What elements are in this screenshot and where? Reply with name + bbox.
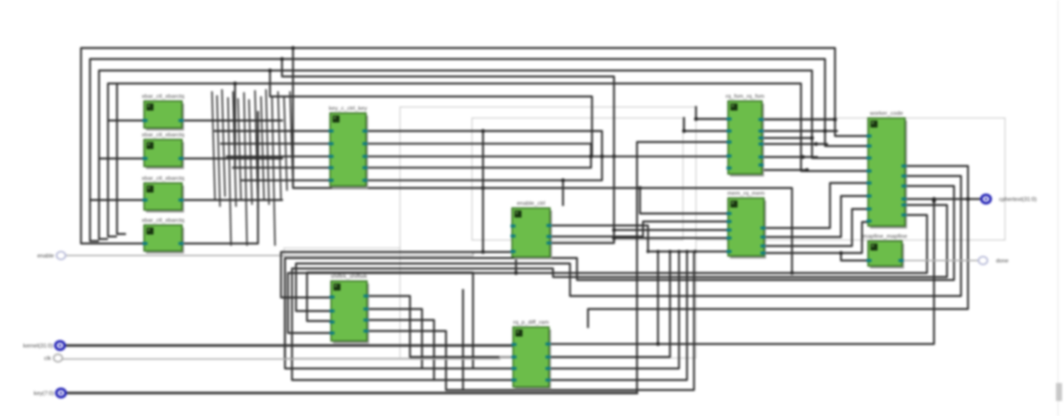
wire enable net (66, 252, 473, 256)
junction (693, 250, 696, 253)
svg-text:rq_p_diff_ram: rq_p_diff_ram (513, 320, 549, 326)
wire hatch v0 (212, 92, 215, 200)
wire hatch-B5.L y167.7 (233, 167, 330, 169)
svg-text:cphertext(31:0): cphertext(31:0) (999, 197, 1037, 203)
wire drop x235 (234, 84, 236, 169)
junction (233, 82, 237, 86)
wire B7.R0 (762, 119, 835, 121)
wire B8.R2-B9 (764, 196, 868, 237)
wire B7.R1 (762, 130, 837, 132)
svg-text:mapfine_mapfine: mapfine_mapfine (863, 234, 907, 240)
wire B6.R1 to bundle top (550, 226, 648, 252)
wire tap B8.L4 (614, 237, 727, 239)
junction (280, 57, 284, 61)
block B8 (727, 191, 767, 259)
junction (481, 250, 485, 254)
block B4 (142, 218, 185, 254)
hierarchy box G3 (284, 248, 400, 358)
block B10 (863, 234, 907, 269)
junction (810, 136, 814, 140)
junction (612, 155, 616, 159)
wire cross v1 (462, 290, 464, 390)
wire B7.R1b (762, 137, 812, 139)
wire B10.L feed (841, 253, 868, 261)
wire tap x563 (562, 180, 564, 205)
junction (932, 199, 936, 203)
wire B2.R-hatch (182, 158, 282, 160)
wire B12.R1 long to P5 net (549, 201, 934, 344)
junction (656, 342, 660, 346)
wire drop x614 to B6.R3 (550, 156, 614, 243)
svg-text:enable_ctrl: enable_ctrl (517, 201, 545, 207)
junction (589, 155, 593, 159)
wire hatch v11 (272, 98, 275, 245)
wire left v4 tail (108, 121, 116, 237)
wire B9.R-P5 (904, 198, 986, 200)
svg-text:enable: enable (37, 254, 54, 260)
wire rail2 B3.L-B9.L2 (90, 59, 868, 200)
svg-text:xbar_ctl_xbarctq: xbar_ctl_xbarctq (142, 133, 185, 139)
block B6 (511, 201, 553, 260)
svg-text:rq_fsm_rq_fsm: rq_fsm_rq_fsm (726, 94, 765, 100)
junction (668, 250, 671, 253)
block B11 (330, 274, 370, 344)
junction (932, 197, 936, 201)
wire hatch-B5.L y180.3 (241, 179, 330, 181)
wire B8.R4-B9 (764, 222, 868, 253)
junction (805, 168, 809, 172)
junction (694, 117, 698, 121)
wire B4.R riser x258 (181, 112, 258, 244)
wire rail4 B1.L-B9.L4 (108, 84, 868, 172)
wire B7.L2 feed (684, 118, 727, 131)
wire left v2 tail (90, 200, 98, 241)
wire done net (902, 260, 978, 262)
wire hatch v6 (244, 93, 247, 245)
svg-text:key(7:0): key(7:0) (34, 391, 54, 397)
block B3 (142, 176, 185, 213)
wire B11.R3 (367, 320, 513, 380)
wire hatch v2 (222, 90, 225, 196)
port enable (37, 252, 65, 260)
hierarchy box G1 (400, 107, 696, 358)
hierarchy box G2 (472, 118, 683, 240)
wire B7.R3 (762, 156, 817, 158)
wire F5 (292, 205, 947, 380)
hierarchy box G4 (696, 118, 1005, 240)
wire B7.L1 feed (696, 107, 727, 119)
svg-text:key_c_ctrl_key: key_c_ctrl_key (329, 106, 367, 112)
junction (268, 69, 272, 73)
junction (561, 178, 565, 182)
wire tap B8.L3 (614, 229, 727, 231)
window edge line (1058, 0, 1059, 416)
wire hatch v13 (284, 97, 287, 190)
wire kernel net (66, 344, 513, 346)
scrollbar fragment (1056, 383, 1062, 401)
wire bundle top to B8.L5 (648, 251, 727, 253)
wire F4 to B11.L4 (288, 215, 927, 333)
wire rail3 B2.L-B9.L3 (99, 71, 868, 159)
svg-text:shiftrk_shiftwk: shiftrk_shiftwk (331, 274, 368, 280)
wire clk net (63, 357, 513, 359)
wire hatch-B5.L y143.7 (221, 143, 330, 145)
junction (656, 250, 659, 253)
junction (677, 250, 680, 253)
svg-text:clk: clk (44, 356, 51, 362)
junction (790, 271, 794, 275)
block B5 (329, 106, 369, 189)
svg-text:done: done (996, 259, 1008, 265)
wire key net (66, 392, 637, 394)
wire left v3 tail (99, 159, 107, 240)
junction (814, 142, 818, 146)
wire B5.R3 long to B7.L5 (366, 155, 727, 157)
wire B6 bottom pin drop (515, 257, 517, 273)
wire B3.R-hatch (182, 199, 282, 201)
wire B6.R2 to B8.L2 (550, 222, 727, 237)
port key (34, 389, 66, 397)
wire left vertical 5 (117, 85, 125, 234)
svg-text:xbar_ctl_xbarctq: xbar_ctl_xbarctq (142, 218, 185, 224)
wire B8.R3-B9 (764, 209, 868, 246)
wire F3 (285, 186, 954, 369)
wire B11.R1 (367, 296, 513, 357)
wire B12.R3 up (549, 252, 679, 369)
svg-text:worker_code: worker_code (869, 111, 903, 117)
junction (514, 271, 518, 275)
wire cascade x282 y76.5 (282, 59, 614, 156)
wire B7.R2 (762, 143, 827, 145)
wire F2 (296, 176, 961, 311)
port cphertext (981, 195, 1036, 203)
wire F1 (588, 166, 968, 327)
wire hatch v7 (249, 100, 252, 204)
junction (833, 118, 837, 122)
junction (638, 186, 642, 190)
svg-text:xbar_ctl_xbarctq: xbar_ctl_xbarctq (142, 94, 185, 100)
wire hatch v1 (217, 96, 220, 206)
wire hatch v5 (238, 99, 241, 200)
port done (979, 257, 1009, 265)
junction (685, 250, 688, 253)
wire B8.L1 feed (640, 188, 727, 214)
block B9 (867, 111, 908, 229)
junction (291, 46, 295, 50)
wire B1.R-hatch (182, 120, 282, 122)
wire B11.R4 under B12 to bundle v5 (367, 252, 694, 391)
junction (839, 251, 843, 255)
block B12 (512, 320, 552, 390)
junction (481, 186, 485, 190)
wire B8.R1-B9 (764, 183, 868, 228)
svg-text:xbar_ctl_xbarctq: xbar_ctl_xbarctq (142, 176, 185, 182)
wire hatch v9 (261, 97, 264, 200)
wire B5.R1 outer rect loop (366, 131, 602, 180)
wire drop x293 y188 run to nest (293, 48, 792, 273)
wire B12.R4 up (549, 252, 687, 381)
junction (600, 155, 604, 159)
wire hatch v10 (266, 90, 269, 204)
wire hatch v4 (233, 92, 236, 206)
wire rail1 B4.L-B9.L1 (81, 48, 868, 244)
block B7 (726, 94, 765, 177)
wire B5.R2 inner rect loop (366, 144, 591, 168)
wire B7.R4 (762, 169, 807, 171)
wire cascade x270 y96.5 (270, 71, 592, 157)
port kernel (23, 341, 64, 349)
wire B12.R2 up (549, 252, 670, 358)
port clk (44, 354, 62, 362)
wire F6 B11.L3 feed (307, 273, 513, 369)
wire H1 B6pin to B11.L1 (281, 252, 512, 298)
junction (966, 197, 970, 201)
junction (612, 236, 616, 240)
junction (801, 155, 805, 159)
block B2 (142, 133, 185, 170)
wire hatch v8 (255, 91, 258, 208)
wire hatch v3 (228, 98, 231, 245)
wire B11.R2 (367, 309, 513, 369)
svg-text:mem_rq_mem: mem_rq_mem (727, 191, 765, 197)
wire bundle v1 (657, 252, 659, 345)
junction (682, 129, 686, 133)
wire riser x483 (482, 131, 484, 252)
block B1 (142, 94, 185, 131)
svg-text:kernel(31:0): kernel(31:0) (23, 344, 53, 350)
junction (612, 228, 616, 232)
wire hatch v14 (290, 92, 293, 186)
junction (481, 129, 485, 133)
wire hatch-B5.L y131 (215, 130, 330, 132)
wire hatch v12 (278, 92, 281, 200)
junction (823, 129, 827, 133)
wire B7.L3 down long vertical x637 (637, 142, 727, 393)
wire hatch-B5.L y156.4 (227, 155, 330, 157)
junction (646, 250, 649, 253)
